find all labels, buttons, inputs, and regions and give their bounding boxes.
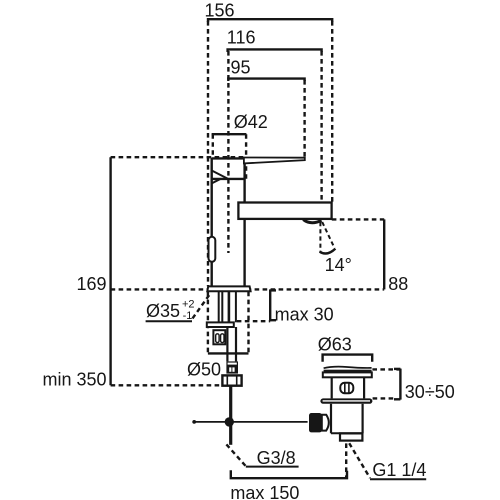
extension line right x=332 (spout tip) — [331, 21, 333, 202]
svg-text:min 350: min 350 — [42, 370, 106, 390]
lower flange highlight — [323, 400, 370, 402]
extension line x=321.6 (aerator) — [320, 51, 322, 202]
D50 clearance box right dashes — [247, 292, 249, 354]
overflow pill — [340, 383, 353, 393]
svg-text:-1: -1 — [183, 310, 193, 322]
extension dashes drain bottom x=346.2 — [345, 443, 347, 477]
svg-text:95: 95 — [231, 58, 251, 78]
svg-text:156: 156 — [205, 1, 235, 21]
dimension 156 line — [205, 1, 333, 23]
lever handle bar — [244, 158, 305, 164]
aerator — [303, 220, 321, 223]
centerline of faucet body x=228.4 — [227, 51, 229, 253]
supply hoses and shank — [219, 292, 236, 323]
hex nut — [222, 375, 241, 385]
drain tailpiece — [340, 433, 362, 440]
dimension 169 vertical line — [76, 157, 110, 385]
svg-text:G1 1/4: G1 1/4 — [372, 460, 426, 480]
pop-up rod horizontal — [193, 421, 307, 423]
dimension 95 line — [228, 58, 304, 81]
lever chamfer — [212, 171, 228, 179]
D50 box bottom line — [208, 352, 249, 354]
leader G1 1/4 diagonal — [349, 443, 370, 478]
label D35 with tolerance — [146, 299, 195, 322]
rod housing cap — [322, 415, 329, 431]
drain neck — [332, 377, 364, 398]
extension line x=304.6 (lever tip) — [303, 80, 305, 158]
D50 clearance box left dashes — [207, 292, 209, 354]
extension dashes min350 level y=385.3 — [111, 384, 223, 386]
counter bottom dashes — [237, 320, 270, 322]
svg-text:Ø63: Ø63 — [318, 334, 352, 354]
extension dashes lever-top level y=157.2 — [111, 156, 244, 158]
dimension 116 line — [227, 28, 322, 53]
water stream ray 14 deg — [322, 222, 334, 248]
extension line left x=208 — [207, 21, 209, 286]
leader G3/8 diagonal — [226, 444, 246, 466]
extension dashes deck level y=289.4 — [111, 288, 385, 290]
drain cap flange — [323, 372, 372, 377]
rod left tip — [192, 420, 196, 424]
drain lower flange — [320, 398, 372, 403]
svg-text:Ø35: Ø35 — [146, 301, 180, 321]
D42 extension dashes right — [245, 134, 247, 180]
bracket slot right — [221, 334, 224, 343]
base plate — [207, 286, 250, 291]
leader D35 underline — [146, 320, 192, 322]
svg-text:G3/8: G3/8 — [257, 448, 296, 468]
svg-text:116: 116 — [227, 28, 256, 48]
compression nut — [226, 361, 238, 373]
mounting washer — [207, 322, 234, 327]
svg-text:169: 169 — [76, 274, 106, 294]
supply pipe rod — [229, 386, 232, 445]
dimension 30-50 top dashes — [372, 368, 400, 370]
dimension D63 bracket — [318, 334, 372, 361]
svg-text:+2: +2 — [182, 299, 195, 311]
dimension D42 bracket — [212, 112, 268, 134]
svg-text:Ø50: Ø50 — [187, 359, 221, 379]
shank tube — [227, 327, 236, 361]
dimension 88 top dashes — [332, 218, 384, 220]
bracket slot left — [216, 334, 219, 343]
fixing bracket — [213, 330, 225, 344]
dimension max30 vertical — [270, 289, 276, 321]
drain cap band — [324, 370, 372, 373]
leader D35 diagonal — [193, 293, 211, 319]
svg-text:max 30: max 30 — [275, 305, 334, 325]
svg-text:14°: 14° — [325, 255, 352, 275]
spout block — [238, 203, 331, 219]
body side button — [209, 237, 216, 262]
D42 extension dashes left — [212, 134, 214, 157]
svg-text:30÷50: 30÷50 — [405, 382, 455, 402]
dimension max150 line — [230, 470, 347, 500]
dimension 88 vertical line — [383, 219, 385, 289]
svg-text:max 150: max 150 — [230, 483, 299, 500]
lever chamfer lower tick — [212, 179, 221, 184]
drain cap dome — [324, 367, 372, 369]
leader G3/8 underline — [246, 466, 299, 468]
drain tube — [331, 404, 363, 434]
water stream ray vertical — [319, 222, 321, 252]
leader G1 1/4 underline — [370, 478, 426, 480]
svg-text:88: 88 — [388, 274, 408, 294]
rod clamp dot — [225, 417, 234, 426]
svg-text:Ø42: Ø42 — [234, 112, 268, 132]
angle arc — [320, 249, 336, 254]
dimension 30-50 bottom dashes — [373, 397, 395, 399]
dimension 30-50 bracket — [394, 369, 400, 400]
faucet body outline — [212, 158, 245, 287]
rod housing on drain — [309, 413, 322, 432]
